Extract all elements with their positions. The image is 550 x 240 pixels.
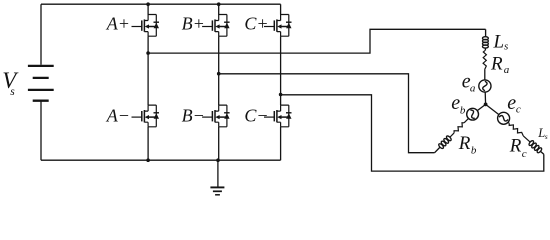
svg-text:c: c <box>516 104 521 116</box>
svg-text:b: b <box>460 105 466 117</box>
resistor Rc zigzag <box>508 122 530 142</box>
resistor Ra zigzag <box>483 51 486 70</box>
svg-text:b: b <box>471 145 477 157</box>
wire neutral to eb <box>477 104 485 110</box>
svg-text:e: e <box>507 92 516 114</box>
leg C wire <box>280 4 282 160</box>
transistor Q B- (MOSFET with freewheel diode) <box>202 105 230 127</box>
wire phase B to motor <box>219 74 435 153</box>
top rail <box>41 3 281 5</box>
wire phase C to motor <box>281 95 544 171</box>
junction dot top rail / leg B <box>217 2 221 6</box>
resistor Rb zigzag <box>450 118 468 137</box>
node B (phase B output) <box>217 72 221 76</box>
wire neutral to ec <box>486 104 499 114</box>
svg-text:a: a <box>504 64 510 76</box>
transistor Q C+ (MOSFET with freewheel diode) <box>264 15 292 37</box>
junction dot bottom rail / leg A <box>146 158 150 162</box>
svg-text:L: L <box>493 32 505 53</box>
EMF source ea <box>479 80 491 92</box>
neutral node dot <box>484 103 488 107</box>
EMF source eb <box>467 108 479 120</box>
svg-text:A−: A− <box>106 105 130 125</box>
svg-text:c: c <box>522 148 527 160</box>
leg B wire <box>218 4 220 160</box>
svg-text:C−: C− <box>244 105 268 125</box>
ground <box>210 160 224 195</box>
wire phase A to motor <box>148 29 486 53</box>
inductor L (phase b) coil <box>435 135 452 153</box>
wire Ra to ea <box>484 70 486 80</box>
inductor Ls (phase c) coil <box>528 140 544 154</box>
wire ea to neutral <box>484 92 486 104</box>
svg-text:s: s <box>504 41 508 53</box>
svg-text:B−: B− <box>182 105 205 125</box>
junction dot top rail / leg A <box>146 2 150 6</box>
svg-text:B+: B+ <box>182 14 205 34</box>
junction dot bottom rail / ground stub <box>216 158 220 162</box>
transistor Q B+ (MOSFET with freewheel diode) <box>202 15 230 37</box>
svg-text:R: R <box>490 54 503 75</box>
node A (phase A output) <box>146 51 150 55</box>
svg-text:a: a <box>470 82 476 94</box>
svg-text:R: R <box>458 133 471 154</box>
node C (phase C output) <box>279 93 283 97</box>
bottom rail <box>41 159 281 161</box>
svg-text:e: e <box>451 92 460 114</box>
EMF source ec <box>498 112 510 124</box>
svg-text:s: s <box>10 86 15 98</box>
leg A wire <box>147 4 149 160</box>
svg-text:R: R <box>509 136 522 157</box>
svg-text:A+: A+ <box>106 14 130 34</box>
svg-text:s: s <box>545 132 548 141</box>
svg-text:C+: C+ <box>244 14 268 34</box>
transistor Q A- (MOSFET with freewheel diode) <box>132 105 160 127</box>
inductor Ls (phase a) coil <box>482 29 488 50</box>
transistor Q C- (MOSFET with freewheel diode) <box>264 105 292 127</box>
battery Vs <box>28 4 54 160</box>
transistor Q A+ (MOSFET with freewheel diode) <box>132 15 160 37</box>
